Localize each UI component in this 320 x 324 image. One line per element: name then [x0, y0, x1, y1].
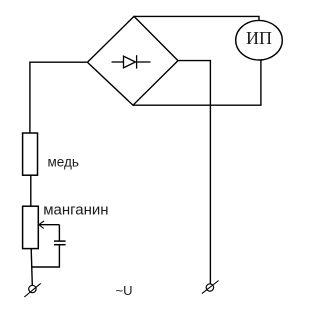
wire R2 bottom to left terminal: [31, 249, 32, 286]
svg-text:ИП: ИП: [246, 28, 272, 48]
diode VD lead right: [137, 61, 151, 63]
diode VD lead left: [112, 61, 124, 63]
capacitor C1 bottom plate: [54, 244, 66, 246]
wiper arrow of R2: [39, 224, 59, 226]
svg-text:манганин: манганин: [43, 202, 108, 219]
measuring instrument U1 ИП circle: [236, 20, 283, 60]
svg-text:~U: ~U: [116, 283, 133, 298]
resistor R2 manganin body: [23, 206, 39, 248]
resistor R1 copper body: [23, 133, 38, 175]
bridge rectifier diamond: [87, 16, 178, 105]
diode VD cathode bar: [136, 55, 138, 68]
diode VD anode triangle: [124, 56, 136, 68]
terminal XT1 circle: [29, 285, 36, 292]
wire wiper to capacitor: [58, 225, 60, 241]
svg-text:медь: медь: [48, 154, 79, 169]
wire left AC branch: bridge left vertex to copper resistor: [30, 62, 88, 133]
wire DC bottom rail: instrument bottom to bridge bottom vertex: [133, 60, 261, 105]
terminal XT2 slash: [202, 281, 219, 294]
terminal XT1 slash: [24, 283, 40, 297]
wire right AC branch: bridge right vertex down to right terminal: [178, 61, 210, 284]
wire between resistors: [30, 175, 32, 206]
terminal XT2 circle: [206, 284, 213, 291]
wire top DC rail from bridge top vertex to instrument: [134, 16, 259, 20]
capacitor C1 top plate: [54, 240, 66, 242]
wire capacitor bottom to main left wire: [31, 245, 59, 267]
